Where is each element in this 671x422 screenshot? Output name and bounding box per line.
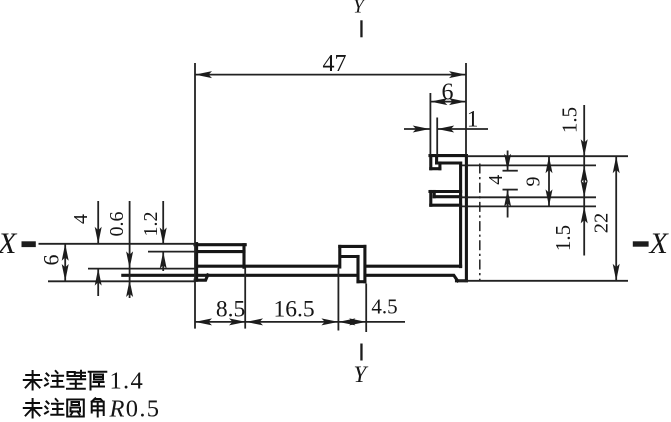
right ext line y206.4 bbox=[459, 205, 596, 207]
left ext line y251.6 bbox=[148, 251, 197, 253]
DIMENSION 22 right bbox=[591, 156, 620, 281]
svg-text:6: 6 bbox=[442, 80, 454, 106]
left ext line y268.6 bbox=[88, 268, 196, 270]
DIMENSION 6 top bbox=[430, 80, 466, 106]
DIMENSION 47 bbox=[195, 51, 466, 78]
svg-text:1.5: 1.5 bbox=[551, 225, 575, 251]
hook2 bottom edge bbox=[431, 204, 461, 207]
middle tab top bbox=[340, 245, 365, 248]
left hook right edge bbox=[242, 245, 245, 268]
dash-dot center line bbox=[479, 164, 481, 281]
DIMENSION 4 left bbox=[70, 201, 102, 296]
ext line 6 left bbox=[429, 93, 431, 155]
ext line 4.5 right bbox=[365, 284, 367, 333]
DIMENSION 0.6 left bbox=[106, 201, 133, 298]
svg-text:0.6: 0.6 bbox=[106, 212, 128, 237]
stub line y189.6 bbox=[503, 189, 518, 191]
svg-text:R0.5: R0.5 bbox=[109, 396, 161, 422]
svg-text:16.5: 16.5 bbox=[273, 297, 314, 323]
svg-text:4: 4 bbox=[485, 175, 507, 185]
svg-text:47: 47 bbox=[323, 51, 347, 77]
stub line y170.7 bbox=[503, 170, 518, 172]
svg-text:1.2: 1.2 bbox=[140, 212, 162, 237]
ext line 47 left / 8.5 left bbox=[194, 63, 196, 329]
hook1 bottom edge bbox=[431, 167, 440, 170]
DIMENSION 4 right bbox=[485, 151, 511, 218]
right foot bottom bbox=[457, 279, 467, 282]
base top surface C right part bbox=[366, 265, 461, 268]
hanzi jiao bbox=[92, 398, 104, 416]
right ext line bottom y280.8 bbox=[459, 280, 628, 282]
Y axis bottom tick bbox=[360, 344, 362, 361]
svg-text:1: 1 bbox=[467, 107, 479, 132]
hanzi wei 2 bbox=[24, 399, 42, 418]
ext line 16.5/4.5 at x338 bbox=[337, 268, 339, 331]
ext line 8.5/16.5 at x245 bbox=[244, 268, 246, 329]
hook1 leg inner bbox=[435, 157, 438, 164]
left foot bottom with chamfer bbox=[195, 275, 208, 280]
right ext line y165.4 bbox=[462, 164, 597, 166]
middle tab inner vertical bbox=[356, 257, 359, 282]
note line 2: wei zhu yuan jiao R0.5 bbox=[24, 396, 160, 422]
right wall left surface bbox=[459, 163, 462, 267]
hook2 leg outer bbox=[429, 192, 432, 206]
svg-text:4: 4 bbox=[70, 214, 92, 224]
DIMENSION row bottom 8.5 16.5 4.5 bbox=[195, 295, 405, 326]
X axis right dash bbox=[633, 241, 649, 246]
left outer edge bbox=[195, 244, 198, 281]
svg-text:X: X bbox=[649, 227, 670, 260]
DIMENSION 1.5 top right and 1.5 bottom right shared line bbox=[551, 105, 588, 256]
svg-text:22: 22 bbox=[591, 213, 613, 234]
middle tab left edge bbox=[338, 246, 341, 267]
svg-text:8.5: 8.5 bbox=[216, 297, 245, 323]
ext line 47 right bbox=[465, 63, 467, 155]
middle tab leg bottom bbox=[358, 280, 365, 283]
left hook inner line B bbox=[197, 250, 244, 253]
right wall right surface bbox=[465, 156, 468, 281]
left hook top edge bbox=[195, 243, 245, 246]
hanzi zhu 2 bbox=[45, 399, 64, 415]
hanzi hou bbox=[89, 372, 107, 390]
DIMENSION 1.2 left bbox=[140, 201, 167, 271]
svg-text:Y: Y bbox=[353, 0, 366, 18]
X axis left dash bbox=[22, 241, 36, 247]
hook2 leg inner bbox=[433, 192, 436, 197]
svg-text:9: 9 bbox=[523, 177, 545, 187]
right ext line top y156 bbox=[467, 155, 629, 157]
middle tab notch underside bbox=[341, 255, 358, 258]
svg-text:X: X bbox=[0, 227, 18, 260]
svg-text:Y: Y bbox=[354, 362, 369, 387]
hanzi zhu bbox=[45, 371, 64, 387]
hook1 ceiling bbox=[437, 161, 461, 164]
svg-text:6: 6 bbox=[39, 255, 64, 266]
DIMENSION 9 right bbox=[523, 156, 553, 206]
ext line 1 right bbox=[436, 118, 438, 156]
svg-text:1.5: 1.5 bbox=[558, 107, 582, 133]
hook2 ceiling bbox=[434, 195, 460, 198]
note line 1: wei zhu bi hou 1.4 bbox=[24, 368, 144, 395]
base bottom surface D bbox=[123, 274, 357, 277]
middle tab right edge bbox=[363, 246, 366, 281]
base top surface C bbox=[197, 265, 339, 268]
svg-text:1.4: 1.4 bbox=[110, 368, 145, 395]
hook2 top edge bbox=[430, 190, 461, 193]
DIMENSION 6 left vertical bbox=[39, 244, 69, 281]
hanzi yuan bbox=[67, 400, 84, 417]
DIMENSION 1 bbox=[404, 107, 488, 133]
right ext line y197.3 bbox=[459, 196, 596, 198]
base bottom surface D right part with chamfer bbox=[366, 275, 458, 281]
top bar top edge bbox=[430, 154, 466, 157]
left ext line X axis y244.3 bbox=[39, 243, 196, 245]
hanzi bi bbox=[67, 371, 85, 389]
hook1 leg outer bbox=[429, 156, 432, 169]
hanzi wei bbox=[24, 371, 42, 390]
left ext line y280 foot bbox=[48, 280, 195, 282]
svg-text:4.5: 4.5 bbox=[371, 295, 397, 319]
hook1 foot right edge bbox=[438, 163, 441, 169]
Y axis top tick bbox=[360, 20, 362, 37]
